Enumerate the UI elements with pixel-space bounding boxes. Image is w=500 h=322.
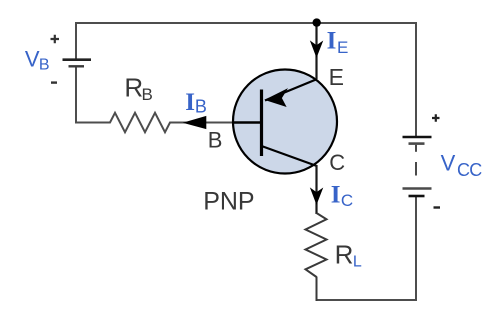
arrow IE pointing down	[311, 42, 322, 57]
battery VCC cell1 negative plate	[409, 142, 425, 145]
plus sign VCC	[432, 114, 440, 122]
svg-text:C: C	[329, 150, 345, 175]
wire collector vertical	[315, 165, 317, 214]
svg-text:I: I	[327, 28, 337, 55]
battery VCC cell2 positive plate	[403, 187, 432, 190]
wire right vertical upper	[415, 22, 417, 136]
transistor emitter lead	[265, 79, 317, 101]
wire top horizontal	[75, 22, 417, 24]
battery VCC cell1 positive plate	[403, 136, 432, 139]
transistor collector lead	[262, 146, 317, 166]
svg-text:B: B	[142, 85, 153, 104]
battery VB positive plate	[63, 58, 92, 61]
wire emitter vertical	[315, 23, 317, 79]
svg-text:E: E	[329, 64, 344, 90]
wire base horizontal with resistor RB zigzag	[75, 113, 233, 132]
transistor base lead	[233, 121, 261, 123]
minus sign VCC	[434, 206, 441, 208]
wire left vertical lower	[75, 67, 77, 123]
plus sign VB	[51, 35, 60, 44]
svg-text:V: V	[25, 47, 40, 72]
wire bottom horizontal	[316, 299, 418, 301]
wire right vertical lower	[415, 197, 417, 301]
svg-text:I: I	[185, 89, 195, 116]
svg-text:R: R	[335, 239, 354, 269]
svg-text:I: I	[331, 182, 341, 209]
svg-text:CC: CC	[457, 160, 482, 180]
battery VCC dashed link stub	[415, 145, 417, 152]
svg-text:C: C	[341, 191, 353, 210]
transistor Q1 circle body	[233, 70, 337, 174]
svg-text:B: B	[195, 97, 207, 117]
minus sign VB	[51, 81, 57, 83]
svg-text:PNP: PNP	[203, 188, 254, 216]
svg-text:B: B	[39, 57, 50, 74]
svg-text:V: V	[441, 151, 456, 176]
svg-text:B: B	[208, 127, 223, 152]
arrow IC pointing down	[311, 189, 322, 204]
svg-text:L: L	[353, 254, 362, 271]
transistor emitter arrow (PNP, pointing to bar)	[266, 90, 286, 106]
transistor base bar	[260, 90, 263, 157]
arrow IB on base wire pointing left	[185, 117, 206, 129]
svg-text:E: E	[337, 38, 348, 57]
wire RL bottom leg	[316, 277, 318, 302]
battery VCC cell2 negative plate	[409, 195, 425, 198]
battery VCC dashed link dash	[415, 162, 417, 176]
wire left vertical upper	[75, 22, 77, 59]
resistor RL zigzag vertical	[306, 213, 327, 277]
svg-text:R: R	[124, 73, 143, 103]
battery VB negative plate	[69, 65, 85, 67]
junction node dot	[313, 18, 321, 26]
